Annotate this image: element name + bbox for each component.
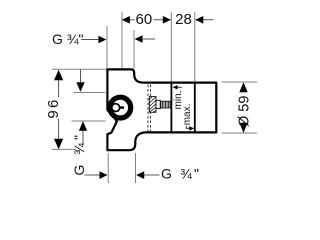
svg-text:G ¾": G ¾" [161,166,201,182]
svg-text:max.: max. [182,104,193,126]
svg-text:28: 28 [175,11,192,28]
svg-text:G ¾": G ¾" [71,132,87,175]
svg-text:96: 96 [45,98,62,119]
svg-text:60: 60 [136,11,153,28]
svg-text:Ø 59: Ø 59 [237,96,253,127]
svg-text:G ¾": G ¾" [52,31,83,47]
